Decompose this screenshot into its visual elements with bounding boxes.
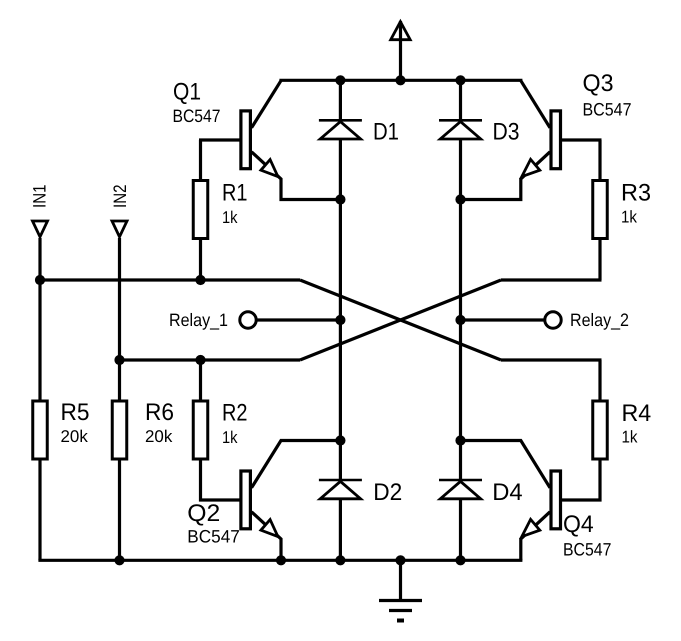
svg-text:1k: 1k [621, 208, 637, 227]
transistor Q2 [201, 441, 341, 561]
wire cross diagonal up [300, 280, 501, 360]
svg-text:BC547: BC547 [173, 106, 221, 126]
resistor R3 [593, 181, 608, 239]
junction IN2 row [114, 355, 124, 365]
input IN2 pin symbol [112, 221, 127, 237]
svg-text:1k: 1k [222, 208, 238, 227]
transistor Q1 [199, 80, 340, 199]
power VCC symbol [391, 21, 411, 80]
svg-text:1k: 1k [222, 428, 238, 447]
junction D1 / Q1 emitter [335, 194, 345, 204]
diode D4 [439, 480, 482, 499]
transistor Q4 [461, 441, 601, 561]
wire top bus [281, 79, 521, 82]
svg-text:IN1: IN1 [30, 185, 50, 209]
svg-text:Relay_1: Relay_1 [169, 310, 228, 330]
svg-text:BC547: BC547 [583, 100, 632, 120]
wire IN2 / R6 top [118, 238, 121, 401]
resistor R5 [33, 401, 48, 459]
wire D1 rail upper [339, 80, 342, 119]
diode D2 [319, 480, 362, 499]
junction top bus / power [395, 75, 405, 85]
input IN1 pin symbol [33, 221, 48, 237]
junction R2 top [195, 355, 205, 365]
resistor R4 [593, 401, 608, 459]
wire IN2 row left [120, 358, 301, 361]
svg-text:BC547: BC547 [187, 527, 240, 547]
wire row right lower [501, 358, 602, 361]
ground [379, 560, 422, 620]
resistor R6 [112, 401, 127, 459]
svg-text:R4: R4 [622, 400, 652, 427]
svg-text:Q1: Q1 [173, 79, 201, 106]
svg-text:D4: D4 [492, 479, 522, 506]
svg-text:R3: R3 [621, 180, 651, 207]
svg-text:Q4: Q4 [563, 511, 594, 538]
wire Relay_1 [257, 318, 340, 321]
junction D4 / bottom bus [455, 555, 465, 565]
svg-text:D3: D3 [493, 119, 520, 146]
junction D4 / Q4 collector [455, 435, 465, 445]
wire R1 bottom [199, 240, 202, 280]
wire IN1 row left [40, 278, 300, 281]
diode D3 [439, 120, 482, 139]
wire R4 top [598, 360, 601, 401]
wire R5 bottom [38, 461, 41, 561]
wire D3 rail upper [459, 80, 462, 119]
svg-text:R5: R5 [61, 399, 90, 426]
junction D2 / bottom bus [335, 555, 345, 565]
junction bus / Q2 emitter [276, 555, 286, 565]
node Relay_1 terminal [240, 312, 256, 328]
svg-text:Relay_2: Relay_2 [570, 310, 629, 330]
wire D4 rail lower [459, 499, 462, 561]
junction bus / R6 [114, 555, 124, 565]
wire D2 rail lower [339, 499, 342, 561]
wire R3 bottom [598, 240, 601, 280]
svg-text:D2: D2 [373, 479, 402, 506]
junction bus / ground [395, 555, 405, 565]
junction D3 / Q3 emitter [455, 194, 465, 204]
junction D3 / Relay_2 [455, 315, 465, 325]
svg-text:Q2: Q2 [187, 500, 220, 527]
svg-text:1k: 1k [622, 428, 638, 447]
svg-text:R1: R1 [222, 180, 248, 207]
svg-text:R2: R2 [222, 400, 248, 427]
svg-text:BC547: BC547 [563, 540, 611, 560]
junction D1 / Relay_1 [335, 315, 345, 325]
junction top bus / D3 [455, 75, 465, 85]
wire Relay_2 [461, 318, 545, 321]
wire R1 top [199, 140, 202, 180]
wire IN1 / R5 top [38, 238, 41, 401]
svg-text:20k: 20k [145, 427, 173, 446]
wire D3 rail lower [459, 139, 462, 480]
wire row right upper [501, 278, 602, 281]
junction D2 / Q2 collector [335, 435, 345, 445]
wire D1 rail lower [339, 139, 342, 480]
node Relay_2 terminal [545, 312, 561, 328]
svg-text:20k: 20k [61, 427, 89, 446]
junction R1 bottom [195, 275, 205, 285]
svg-text:D1: D1 [373, 119, 399, 146]
wire R3 top [598, 140, 601, 180]
svg-text:IN2: IN2 [110, 185, 130, 209]
resistor R1 [193, 181, 208, 239]
junction top bus / D1 [335, 75, 345, 85]
wire R2 top [199, 360, 202, 401]
wire bottom bus [40, 559, 521, 562]
resistor R2 [193, 401, 208, 459]
svg-text:Q3: Q3 [583, 70, 614, 97]
transistor Q3 [461, 80, 602, 199]
junction IN1 row [35, 275, 45, 285]
wire R6 bottom [118, 461, 121, 561]
diode D1 [319, 120, 362, 139]
svg-text:R6: R6 [145, 399, 174, 426]
wire cross diagonal down [300, 280, 501, 360]
